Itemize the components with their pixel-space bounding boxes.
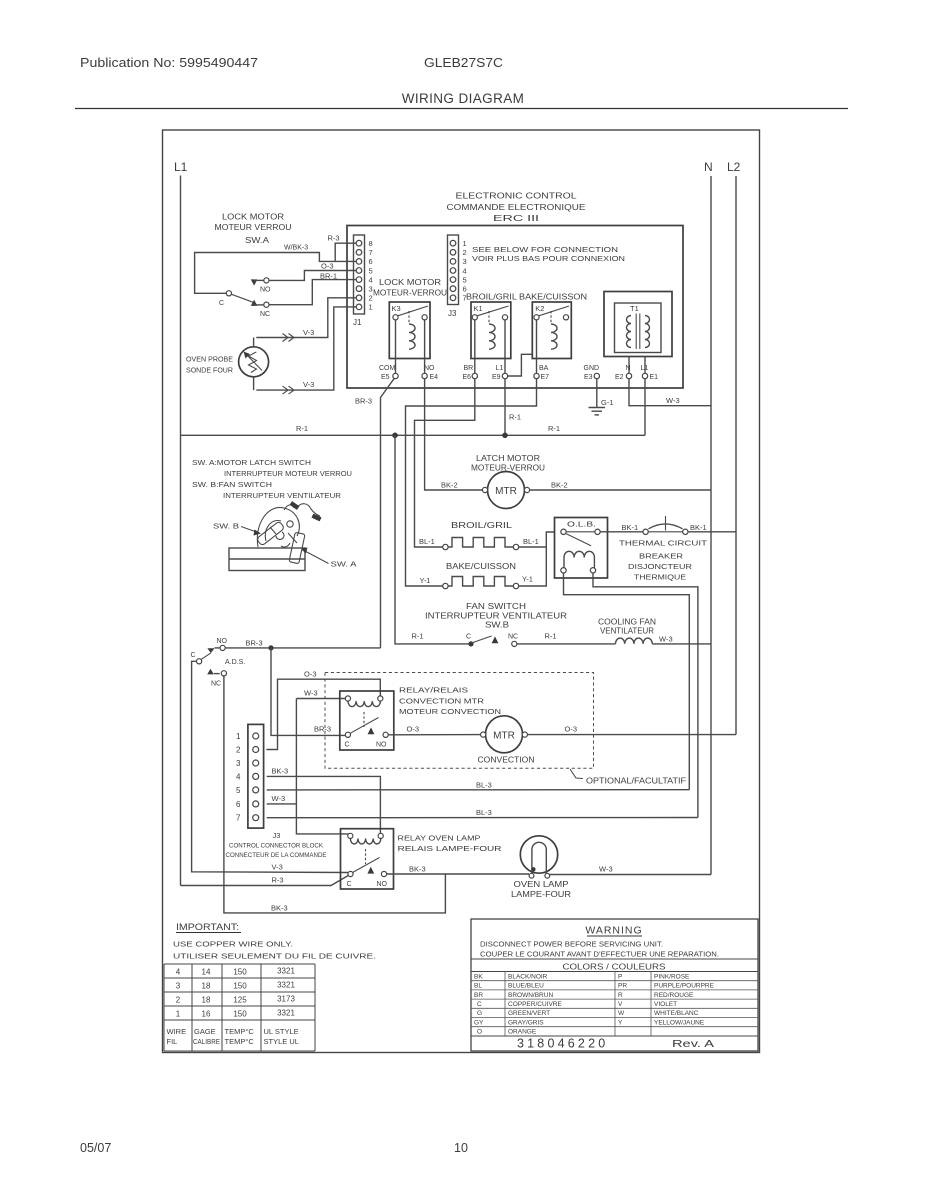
svg-text:BL-1: BL-1	[523, 537, 539, 546]
svg-text:E9: E9	[492, 374, 501, 381]
svg-text:BL: BL	[474, 983, 482, 990]
svg-text:1: 1	[236, 732, 241, 741]
svg-text:L1: L1	[496, 365, 504, 372]
connector J1 body	[354, 235, 365, 314]
svg-text:C: C	[347, 881, 352, 888]
wire bake right to OLB branch	[519, 547, 547, 586]
wire OLB to breaker	[600, 531, 643, 533]
svg-text:1: 1	[369, 303, 373, 312]
wire latch motor to N	[530, 489, 711, 491]
svg-text:VIOLET: VIOLET	[654, 1001, 677, 1008]
wire E9 down to R-1 bus	[504, 379, 506, 436]
wire gauge table	[164, 964, 315, 1051]
bake element resistor	[443, 577, 519, 589]
wire OLB coil left down-right	[564, 573, 690, 790]
svg-text:K3: K3	[392, 304, 401, 313]
svg-text:BK-2: BK-2	[441, 481, 458, 490]
svg-text:RELAY OVEN LAMP: RELAY OVEN LAMP	[398, 834, 481, 843]
svg-text:14: 14	[202, 968, 211, 977]
svg-text:E3: E3	[584, 374, 593, 381]
svg-text:C: C	[191, 652, 196, 659]
svg-text:NO: NO	[217, 638, 228, 645]
svg-text:4: 4	[369, 275, 373, 284]
svg-text:W-3: W-3	[666, 396, 680, 405]
fan switch wiper	[472, 636, 492, 643]
svg-text:OVEN LAMP: OVEN LAMP	[514, 880, 569, 889]
wire O-3 pin2 to convection coil	[266, 679, 380, 749]
svg-text:BK-3: BK-3	[409, 865, 426, 874]
wire R-1 drop to fan switch	[395, 435, 469, 644]
svg-text:VENTILATEUR: VENTILATEUR	[600, 627, 654, 636]
svg-text:W-3: W-3	[599, 865, 613, 874]
svg-text:W-3: W-3	[304, 689, 318, 698]
diagram border frame	[163, 130, 760, 1053]
svg-text:GY: GY	[474, 1019, 484, 1026]
svg-text:E5: E5	[381, 374, 390, 381]
svg-text:18: 18	[202, 996, 211, 1005]
cooling fan inductor	[616, 638, 653, 644]
switch legend text	[192, 458, 352, 500]
svg-text:BL-3: BL-3	[476, 808, 492, 817]
connector chevrons bottom probe wire	[283, 386, 295, 394]
wire N main vertical	[710, 176, 712, 875]
svg-text:318046220: 318046220	[517, 1037, 608, 1051]
title underline	[75, 108, 848, 110]
svg-text:VOIR PLUS BAS POUR CONNEXION: VOIR PLUS BAS POUR CONNEXION	[472, 256, 625, 263]
svg-text:OPTIONAL/FACULTATIF: OPTIONAL/FACULTATIF	[586, 777, 686, 786]
svg-text:1: 1	[176, 1010, 181, 1019]
svg-text:LATCH MOTOR: LATCH MOTOR	[476, 454, 540, 463]
svg-text:K1: K1	[474, 304, 483, 313]
svg-text:3173: 3173	[277, 995, 295, 1004]
svg-text:2: 2	[463, 248, 467, 257]
svg-text:CONNECTEUR DE LA COMMANDE: CONNECTEUR DE LA COMMANDE	[226, 852, 327, 859]
svg-text:N: N	[626, 365, 631, 372]
colors table grid	[471, 972, 758, 1037]
svg-text:N: N	[704, 160, 713, 174]
svg-text:NO: NO	[376, 742, 387, 749]
wire pin7 BL-3	[267, 817, 698, 819]
svg-text:BR: BR	[464, 365, 474, 372]
connector J3 body (ERC)	[448, 235, 459, 305]
svg-text:5: 5	[369, 266, 373, 275]
svg-text:SW. B: SW. B	[213, 522, 239, 531]
ground symbol G-1	[589, 408, 606, 415]
svg-text:2: 2	[176, 996, 181, 1005]
svg-text:C: C	[466, 634, 471, 641]
svg-text:OVEN PROBE: OVEN PROBE	[186, 355, 233, 364]
svg-text:GLEB27S7C: GLEB27S7C	[424, 56, 503, 70]
svg-text:MTR: MTR	[493, 730, 515, 741]
svg-text:4: 4	[176, 968, 181, 977]
svg-text:BL-3: BL-3	[476, 781, 492, 790]
svg-text:THERMIQUE: THERMIQUE	[634, 573, 686, 582]
wire fan switch to cooling fan	[517, 643, 616, 645]
connector J1 pin numbers	[369, 239, 373, 312]
svg-text:3321: 3321	[277, 1009, 295, 1018]
wire W-3 vertical pin6 branch to coils	[296, 699, 350, 834]
fan switch SW.B labels	[425, 602, 567, 630]
svg-text:6: 6	[236, 800, 241, 809]
svg-text:150: 150	[233, 982, 247, 991]
svg-text:BK-3: BK-3	[271, 904, 288, 913]
wire pin5 BL-3	[267, 789, 690, 791]
wire R-3 pin8 jog	[335, 243, 356, 261]
svg-text:INTERRUPTEUR VENTILATEUR: INTERRUPTEUR VENTILATEUR	[223, 491, 342, 500]
svg-text:BR-3: BR-3	[355, 397, 372, 406]
transformer T1	[604, 292, 672, 374]
broil element resistor	[443, 538, 519, 550]
svg-text:E7: E7	[541, 374, 550, 381]
svg-text:COUPER LE COURANT AVANT D’EFFE: COUPER LE COURANT AVANT D’EFFECTUER UNE …	[480, 952, 719, 959]
svg-text:GND: GND	[584, 365, 600, 372]
oven lamp relay	[341, 829, 394, 889]
svg-text:3: 3	[463, 257, 467, 266]
svg-text:J3: J3	[273, 831, 281, 840]
wire convection relay NO to motor	[388, 734, 482, 736]
svg-text:CALIBRE: CALIBRE	[193, 1037, 220, 1046]
svg-text:L2: L2	[727, 160, 741, 174]
svg-text:C: C	[219, 300, 224, 307]
svg-text:BR-3: BR-3	[314, 725, 331, 734]
wire breaker to L2	[688, 531, 736, 533]
switch SW.A NC terminal	[264, 302, 269, 307]
svg-text:O: O	[477, 1029, 482, 1036]
svg-text:Y-1: Y-1	[522, 575, 533, 584]
oven lamp	[520, 836, 557, 878]
control connector block J3	[248, 724, 264, 828]
svg-text:NC: NC	[508, 634, 518, 641]
latch motor MTR	[471, 454, 545, 509]
colors table entries	[474, 973, 715, 1035]
wire E2 to N	[629, 379, 711, 406]
svg-text:INTERRUPTEUR MOTEUR VERROU: INTERRUPTEUR MOTEUR VERROU	[224, 469, 352, 478]
svg-text:BROIL/GRIL BAKE/CUISSON: BROIL/GRIL BAKE/CUISSON	[466, 293, 587, 302]
svg-text:R-3: R-3	[272, 876, 284, 885]
svg-text:4: 4	[463, 266, 467, 275]
wire J1 pin2 to oven probe top	[256, 298, 356, 338]
OLB overload breaker box	[555, 518, 608, 579]
wire R-1 bus L1 to E1	[181, 434, 646, 436]
svg-text:PR: PR	[618, 983, 627, 990]
connector J1 pins	[356, 240, 362, 309]
svg-text:NC: NC	[211, 681, 221, 688]
connector J3 pin numbers	[463, 239, 467, 303]
latch mechanism pictorial	[229, 501, 322, 570]
svg-text:C: C	[477, 1001, 482, 1008]
svg-text:NO: NO	[377, 881, 388, 888]
SW.A wiper line	[231, 294, 253, 302]
svg-text:PINK/ROSE: PINK/ROSE	[654, 973, 690, 980]
svg-text:150: 150	[233, 968, 247, 977]
svg-text:SW. B:FAN SWITCH: SW. B:FAN SWITCH	[192, 480, 272, 489]
svg-text:THERMAL CIRCUIT: THERMAL CIRCUIT	[619, 539, 708, 548]
svg-text:BR-1: BR-1	[320, 272, 337, 281]
svg-text:DISCONNECT POWER BEFORE SERVIC: DISCONNECT POWER BEFORE SERVICING UNIT.	[480, 942, 663, 949]
wire ADS NC down (BK-3) to lamp relay NO	[224, 676, 446, 913]
wire gauge table data	[176, 967, 296, 1019]
svg-text:ELECTRONIC CONTROL: ELECTRONIC CONTROL	[456, 192, 578, 201]
svg-text:RELAY/RELAIS: RELAY/RELAIS	[399, 686, 468, 695]
svg-text:W/BK-3: W/BK-3	[284, 245, 308, 252]
svg-text:GREEN/VERT: GREEN/VERT	[508, 1010, 550, 1017]
A.D.S. switch	[191, 638, 246, 688]
svg-text:BK: BK	[474, 973, 483, 980]
wire oven lamp to N	[550, 874, 711, 876]
svg-text:E6: E6	[463, 374, 472, 381]
svg-text:G-1: G-1	[601, 398, 614, 407]
svg-text:FIL: FIL	[167, 1037, 178, 1046]
convection relay	[340, 691, 394, 750]
svg-text:J1: J1	[353, 318, 362, 327]
svg-text:MOTEUR-VERROU: MOTEUR-VERROU	[373, 289, 447, 298]
svg-text:V-3: V-3	[303, 328, 314, 337]
svg-text:LAMPE-FOUR: LAMPE-FOUR	[511, 890, 571, 899]
svg-text:5: 5	[463, 275, 467, 284]
svg-text:L1: L1	[174, 160, 188, 174]
svg-text:G: G	[477, 1010, 482, 1017]
svg-text:10: 10	[454, 1141, 468, 1155]
cooling fan labels	[598, 618, 656, 636]
svg-text:NO: NO	[424, 365, 435, 372]
svg-text:K2: K2	[535, 304, 544, 313]
svg-text:W: W	[618, 1010, 625, 1017]
ERC control board box	[347, 226, 683, 389]
wire BR-3 from E5	[381, 378, 395, 648]
svg-text:125: 125	[233, 996, 247, 1005]
wire gauge table header	[167, 1027, 299, 1046]
svg-text:NO: NO	[260, 287, 271, 294]
svg-text:UTILISER SEULEMENT DU FIL DE C: UTILISER SEULEMENT DU FIL DE CUIVRE.	[173, 952, 376, 961]
terminal E2 N	[615, 365, 632, 381]
svg-text:V-3: V-3	[303, 380, 314, 389]
svg-text:R-1: R-1	[412, 632, 424, 641]
svg-text:DISJONCTEUR: DISJONCTEUR	[628, 562, 693, 571]
svg-text:Publication No: 5995490447: Publication No: 5995490447	[80, 56, 258, 70]
svg-text:BK-1: BK-1	[622, 523, 639, 532]
svg-text:WIRE: WIRE	[167, 1027, 187, 1036]
optional convection dashed box	[325, 673, 594, 769]
svg-text:6: 6	[369, 257, 373, 266]
svg-text:L1: L1	[641, 365, 649, 372]
wire ADS NO to BR-3 vertical	[225, 647, 380, 649]
svg-text:3: 3	[176, 982, 181, 991]
wire W-3 top to convection coil left	[296, 698, 345, 700]
junction dot R-1 bus left	[392, 433, 398, 439]
svg-text:R-1: R-1	[548, 424, 560, 433]
svg-text:COOLING FAN: COOLING FAN	[598, 618, 656, 627]
terminal E5 COM	[379, 365, 398, 381]
oven probe thermistor	[239, 338, 269, 391]
svg-text:MOTEUR CONVECTION: MOTEUR CONVECTION	[399, 707, 501, 716]
svg-text:SW.B: SW.B	[485, 621, 509, 630]
svg-text:P: P	[618, 973, 622, 980]
svg-text:BAKE/CUISSON: BAKE/CUISSON	[446, 562, 516, 571]
svg-text:7: 7	[369, 248, 373, 257]
leader optional	[570, 769, 583, 779]
wire cooling fan to N	[652, 643, 711, 645]
svg-text:8: 8	[369, 239, 373, 248]
svg-text:WARNING: WARNING	[585, 925, 642, 937]
wire E3 to ground	[596, 379, 598, 408]
terminal E1 L1	[641, 365, 659, 381]
svg-text:YELLOW/JAUNE: YELLOW/JAUNE	[654, 1019, 705, 1026]
svg-text:Rev. A: Rev. A	[672, 1038, 714, 1050]
svg-text:W-3: W-3	[272, 794, 286, 803]
svg-text:O-3: O-3	[407, 725, 420, 734]
svg-text:GAGE: GAGE	[194, 1027, 216, 1036]
svg-text:BR-3: BR-3	[246, 639, 263, 648]
svg-text:SW.A: SW.A	[245, 236, 270, 245]
svg-text:18: 18	[202, 982, 211, 991]
svg-text:BREAKER: BREAKER	[639, 552, 684, 561]
svg-text:05/07: 05/07	[80, 1141, 111, 1155]
svg-text:COPPER/CUIVRE: COPPER/CUIVRE	[508, 1001, 562, 1008]
svg-text:ORANGE: ORANGE	[508, 1029, 537, 1036]
wire L2 main vertical	[735, 176, 737, 735]
svg-text:CONVECTION: CONVECTION	[478, 756, 535, 765]
wire convection motor to L2	[527, 734, 736, 736]
svg-text:R-1: R-1	[296, 424, 308, 433]
convection relay labels	[399, 686, 501, 717]
svg-text:RELAIS LAMPE-FOUR: RELAIS LAMPE-FOUR	[398, 844, 503, 853]
lock motor SW.A title	[215, 213, 292, 246]
wire E7 to bake element	[406, 379, 537, 586]
switch SW.A NO terminal	[264, 278, 269, 283]
fan switch SW.B common dot	[468, 641, 473, 646]
svg-text:BK-1: BK-1	[690, 523, 707, 532]
svg-text:BK-3: BK-3	[272, 767, 289, 776]
svg-text:R: R	[618, 992, 623, 999]
svg-text:2: 2	[236, 746, 241, 755]
wire E6 to broil element	[415, 379, 475, 547]
svg-text:WHITE/BLANC: WHITE/BLANC	[654, 1010, 699, 1017]
svg-text:R-1: R-1	[545, 632, 557, 641]
svg-text:O.L.B.: O.L.B.	[567, 522, 596, 529]
SW.A NC arrow	[251, 300, 258, 306]
svg-text:BROIL/GRIL: BROIL/GRIL	[451, 521, 513, 530]
svg-text:UL STYLE: UL STYLE	[264, 1027, 299, 1036]
svg-text:3321: 3321	[277, 967, 295, 976]
svg-text:GRAY/GRIS: GRAY/GRIS	[508, 1019, 544, 1026]
svg-text:4: 4	[236, 772, 241, 781]
svg-text:BK-2: BK-2	[551, 481, 568, 490]
junction dot ADS BR-3	[268, 645, 273, 650]
svg-text:150: 150	[233, 1010, 247, 1019]
junction dot R-1 bus right	[502, 433, 508, 439]
electronic control title text	[447, 192, 586, 224]
svg-text:MOTEUR VERROU: MOTEUR VERROU	[215, 223, 292, 232]
wire NO to J1 pin5 (O-3)	[269, 271, 356, 281]
connector J3 pins	[450, 240, 456, 300]
svg-text:V: V	[618, 1001, 623, 1008]
svg-text:TEMP°C: TEMP°C	[225, 1037, 255, 1046]
svg-text:5: 5	[236, 786, 241, 795]
svg-text:SW. A: SW. A	[331, 560, 357, 569]
svg-text:BROWN/BRUN: BROWN/BRUN	[508, 992, 553, 999]
switch SW.A common terminal	[226, 291, 231, 296]
svg-text:LOCK MOTOR: LOCK MOTOR	[379, 278, 441, 287]
fan switch arrow	[492, 636, 499, 643]
convection motor MTR	[478, 716, 535, 765]
wire L1 main vertical	[180, 176, 182, 886]
svg-text:16: 16	[202, 1010, 211, 1019]
relay K3	[389, 302, 430, 373]
wire NC to J1 pin4 (BR-1)	[269, 280, 356, 305]
relay K1	[471, 302, 511, 373]
wire lamp relay NO to oven lamp	[387, 873, 529, 875]
wire ADS junction down to convection relay C	[271, 648, 345, 736]
wire ADS C down (V-3) to lamp relay C	[192, 661, 348, 872]
fan switch NC terminal	[512, 641, 517, 646]
svg-text:R-1: R-1	[509, 413, 521, 422]
svg-text:E4: E4	[430, 374, 439, 381]
svg-text:BL-1: BL-1	[419, 537, 435, 546]
terminal E7 BA	[534, 365, 549, 381]
wire J1 pin1 to oven probe bottom	[256, 307, 356, 390]
svg-text:3: 3	[236, 759, 241, 768]
svg-text:ERC III: ERC III	[493, 214, 539, 223]
svg-text:IMPORTANT:: IMPORTANT:	[176, 922, 239, 932]
warning box	[471, 919, 758, 1051]
svg-text:INTERRUPTEUR VENTILATEUR: INTERRUPTEUR VENTILATEUR	[425, 612, 567, 621]
svg-text:BLUE/BLEU: BLUE/BLEU	[508, 983, 544, 990]
svg-text:BR: BR	[474, 992, 483, 999]
svg-text:O-3: O-3	[565, 725, 578, 734]
svg-text:NC: NC	[260, 311, 270, 318]
wire pin4 BK-3 to lamp relay coil	[267, 776, 381, 833]
svg-text:USE COPPER WIRE ONLY.: USE COPPER WIRE ONLY.	[173, 940, 293, 949]
svg-text:E2: E2	[615, 374, 624, 381]
svg-text:R-3: R-3	[328, 234, 340, 243]
wire E9 jog into K2	[508, 354, 532, 376]
connector chevrons top probe wire	[283, 334, 295, 342]
label thermal circuit breaker	[619, 539, 708, 582]
terminal E9 L1	[492, 365, 508, 381]
wire L1 to lamp relay C (R-3)	[181, 875, 351, 886]
svg-text:C: C	[345, 742, 350, 749]
svg-text:PURPLE/POURPRE: PURPLE/POURPRE	[654, 983, 715, 990]
svg-text:SEE BELOW FOR CONNECTION: SEE BELOW FOR CONNECTION	[472, 247, 618, 254]
svg-text:STYLE UL: STYLE UL	[264, 1037, 299, 1046]
terminal E6 BR	[463, 365, 478, 381]
SW.A NO arrow	[251, 279, 258, 285]
svg-text:T1: T1	[630, 304, 639, 313]
svg-text:J3: J3	[448, 309, 457, 318]
svg-text:MTR: MTR	[495, 486, 517, 497]
terminal E3 GND	[584, 365, 600, 381]
wire OLB coil right down-right	[593, 573, 698, 818]
svg-text:CONTROL CONNECTOR BLOCK: CONTROL CONNECTOR BLOCK	[229, 843, 323, 850]
svg-text:LOCK MOTOR: LOCK MOTOR	[222, 213, 284, 222]
relay K2	[532, 302, 571, 373]
svg-text:BLACK/NOIR: BLACK/NOIR	[508, 973, 548, 980]
svg-text:WIRING DIAGRAM: WIRING DIAGRAM	[402, 91, 525, 106]
svg-text:7: 7	[236, 814, 241, 823]
svg-text:COLORS / COULEURS: COLORS / COULEURS	[563, 962, 666, 972]
svg-text:CONVECTION MTR: CONVECTION MTR	[399, 697, 485, 706]
svg-text:SW. A:MOTOR LATCH SWITCH: SW. A:MOTOR LATCH SWITCH	[192, 458, 311, 467]
svg-text:COMMANDE ELECTRONIQUE: COMMANDE ELECTRONIQUE	[447, 203, 586, 212]
svg-text:FAN SWITCH: FAN SWITCH	[466, 602, 526, 611]
wire pin6 W-3 stub	[267, 803, 297, 805]
svg-text:1: 1	[463, 239, 467, 248]
wire W/BK-3 loop from C to J1 pin6	[195, 253, 357, 294]
terminal E4 NO	[422, 365, 438, 381]
thermal circuit breaker	[643, 516, 688, 535]
colors table header	[471, 958, 758, 960]
svg-text:TEMP°C: TEMP°C	[225, 1027, 255, 1036]
